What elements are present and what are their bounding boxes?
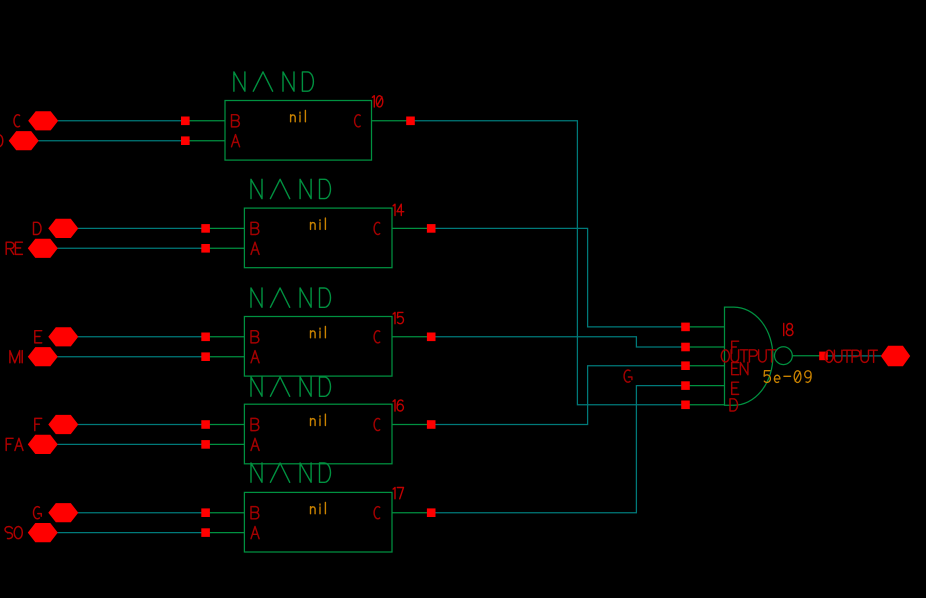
pin label A <box>251 438 259 450</box>
export pin G <box>48 503 78 522</box>
NAND gate 16 body <box>244 404 392 464</box>
pin label C <box>355 115 361 127</box>
NAND gate 14 value nil <box>311 218 326 229</box>
wire A stub <box>206 443 245 445</box>
NAND gate 17 value nil <box>311 502 326 513</box>
pin label EN <box>732 363 748 375</box>
pin <box>681 401 690 410</box>
NAND gate 17 body <box>244 492 392 552</box>
pin label B <box>251 418 259 430</box>
pin <box>201 333 210 342</box>
wire RE to pin <box>58 247 206 249</box>
NAND gate 15 value nil <box>311 327 326 338</box>
NAND gate 15 body <box>244 317 392 377</box>
export label DO <box>0 135 3 147</box>
pin label B <box>251 331 259 343</box>
pin <box>201 244 210 253</box>
export pin D <box>48 219 78 238</box>
instance name 10 <box>372 96 382 107</box>
export pin DO <box>9 131 39 150</box>
instance name 14 <box>393 204 404 215</box>
NAND gate 16 value nil <box>311 414 326 425</box>
export label E <box>35 331 42 343</box>
export label FA <box>6 438 23 450</box>
wire net from NAND 14 to U8 input <box>431 228 685 327</box>
wire net from NAND 17 to U8 input <box>431 386 685 513</box>
pin label B <box>232 115 240 127</box>
wire OUTPUT net <box>824 355 882 357</box>
NAND gate 16 title <box>251 377 331 396</box>
NAND gate 14 body <box>244 208 392 268</box>
wire A stub <box>206 356 245 358</box>
wire B stub <box>206 424 245 426</box>
wire B stub <box>206 336 245 338</box>
instance name 17 <box>393 488 403 499</box>
wire net from NAND 16 to U8 input <box>431 366 685 425</box>
wire gate input stub <box>686 385 725 387</box>
export label SO <box>5 527 22 539</box>
NAND gate I8 body <box>725 307 773 405</box>
pin <box>201 440 210 449</box>
export label C <box>14 115 20 127</box>
pin label A <box>251 242 259 254</box>
export label RE <box>6 242 22 254</box>
pin <box>427 508 436 517</box>
wire net from NAND 15 to U8 input <box>431 337 685 347</box>
pin <box>427 333 436 342</box>
export pin E <box>48 327 78 346</box>
pin label F <box>732 341 739 353</box>
pin <box>427 224 436 233</box>
wire F to pin <box>78 424 206 426</box>
instance name I8 <box>784 324 793 336</box>
pin label C <box>374 331 380 343</box>
wire DO to pin <box>38 140 185 142</box>
value 5e-09 <box>764 371 811 383</box>
wire gate input stub <box>686 326 725 328</box>
pin <box>681 343 690 352</box>
pin label A <box>232 135 240 147</box>
NAND gate I8 output bubble <box>775 347 793 365</box>
pin <box>406 117 415 126</box>
pin label D <box>730 399 738 411</box>
wire FA to pin <box>58 443 206 445</box>
pin label B <box>251 507 259 519</box>
wire MI to pin <box>58 356 206 358</box>
wire SO to pin <box>58 532 206 534</box>
wire B stub <box>206 512 245 514</box>
wire C stub <box>392 424 431 426</box>
NAND gate 17 title <box>251 463 331 482</box>
export pin FA <box>28 435 58 454</box>
instance name 16 <box>393 400 403 411</box>
export pin RE <box>28 239 58 258</box>
pin <box>201 224 210 233</box>
pin <box>181 117 190 126</box>
export label MI <box>10 351 22 363</box>
wire C stub <box>392 336 431 338</box>
wire A stub <box>185 140 225 142</box>
pin label C <box>374 418 380 430</box>
pin label OUTPUT <box>721 350 775 362</box>
export label OUTPUT <box>825 350 877 362</box>
export pin F <box>48 415 78 434</box>
pin <box>201 420 210 429</box>
export label F <box>35 418 42 430</box>
wire D to pin <box>78 227 206 229</box>
pin <box>427 420 436 429</box>
wire B stub <box>206 227 245 229</box>
wire C to pin <box>58 120 185 122</box>
wire G to pin <box>78 512 206 514</box>
pin label C <box>374 507 380 519</box>
wire gate output stub <box>792 355 823 357</box>
export pin C <box>28 111 58 130</box>
wire A stub <box>206 532 245 534</box>
wire A stub <box>206 247 245 249</box>
export pin OUTPUT <box>881 346 910 366</box>
pin <box>681 381 690 390</box>
wire gate input stub <box>686 404 725 406</box>
wire gate input stub <box>686 346 725 348</box>
pin <box>181 136 190 145</box>
net label G <box>624 370 632 382</box>
NAND gate 15 title <box>251 288 331 307</box>
wire E to pin <box>78 336 206 338</box>
pin label E <box>732 382 739 394</box>
export label G <box>34 507 42 519</box>
wire C stub <box>392 227 431 229</box>
instance name 15 <box>393 312 403 323</box>
NAND gate 14 title <box>251 179 331 198</box>
wire net from NAND 10 to U8 input <box>411 121 686 405</box>
NAND gate 10 body <box>225 101 372 161</box>
wire B stub <box>185 120 225 122</box>
wire C stub <box>392 512 431 514</box>
wire gate input stub <box>686 365 725 367</box>
pin <box>201 528 210 537</box>
pin label A <box>251 527 259 539</box>
pin label B <box>251 222 259 234</box>
NAND gate 10 title <box>234 72 314 91</box>
pin <box>201 352 210 361</box>
pin <box>681 361 690 370</box>
wire C stub <box>372 120 411 122</box>
export pin SO <box>28 523 58 542</box>
export label D <box>34 222 42 234</box>
pin <box>819 352 828 361</box>
pin label C <box>374 222 380 234</box>
pin label A <box>251 351 259 363</box>
NAND gate 10 value nil <box>291 111 306 122</box>
export pin MI <box>28 347 58 366</box>
pin <box>681 323 690 332</box>
pin <box>201 508 210 517</box>
